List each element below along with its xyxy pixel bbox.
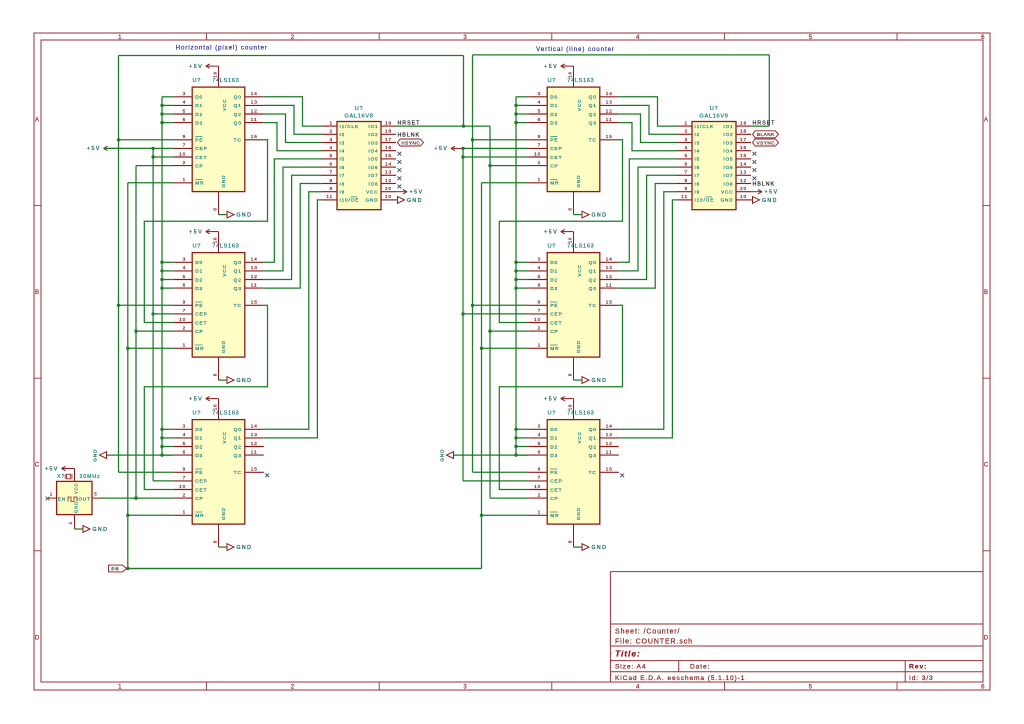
svg-text:+5V: +5V bbox=[434, 146, 448, 152]
svg-text:2: 2 bbox=[329, 129, 333, 134]
svg-text:GND: GND bbox=[237, 378, 253, 384]
svg-text:16: 16 bbox=[568, 404, 573, 410]
svg-text:HBLNK: HBLNK bbox=[753, 182, 775, 188]
svg-text:4: 4 bbox=[183, 265, 187, 270]
svg-text:VCC: VCC bbox=[222, 431, 227, 443]
svg-text:4: 4 bbox=[684, 145, 688, 150]
svg-text:D0: D0 bbox=[550, 427, 558, 433]
svg-text:5: 5 bbox=[183, 441, 187, 446]
svg-text:HRSET: HRSET bbox=[398, 120, 421, 126]
svg-text:11: 11 bbox=[326, 194, 333, 199]
svg-text:13: 13 bbox=[251, 432, 258, 437]
svg-text:GND: GND bbox=[237, 213, 253, 219]
svg-text:7: 7 bbox=[183, 308, 187, 313]
svg-text:+5V: +5V bbox=[410, 190, 424, 196]
svg-text:IO7: IO7 bbox=[368, 173, 378, 178]
svg-text:TC: TC bbox=[234, 138, 242, 144]
svg-text:13: 13 bbox=[251, 100, 258, 105]
svg-text:+5V: +5V bbox=[765, 190, 779, 196]
svg-text:2: 2 bbox=[291, 35, 295, 41]
svg-text:Q2: Q2 bbox=[234, 112, 242, 118]
svg-text:18: 18 bbox=[740, 129, 747, 134]
svg-text:16: 16 bbox=[385, 145, 392, 150]
svg-text:CET: CET bbox=[550, 487, 562, 493]
svg-text:IO4: IO4 bbox=[723, 149, 733, 154]
svg-text:14: 14 bbox=[251, 91, 258, 96]
svg-text:TC: TC bbox=[589, 303, 597, 309]
svg-text:D1: D1 bbox=[550, 269, 558, 275]
svg-text:9: 9 bbox=[329, 186, 333, 191]
svg-text:5: 5 bbox=[538, 274, 542, 279]
svg-text:D2: D2 bbox=[550, 112, 558, 118]
svg-text:2: 2 bbox=[183, 492, 187, 497]
svg-text:4: 4 bbox=[636, 685, 640, 691]
svg-text:TC: TC bbox=[589, 470, 597, 476]
svg-text:6: 6 bbox=[981, 35, 985, 41]
svg-text:12: 12 bbox=[606, 108, 613, 113]
svg-text:15: 15 bbox=[251, 467, 258, 472]
svg-text:8: 8 bbox=[684, 178, 688, 183]
svg-text:Q2: Q2 bbox=[589, 277, 597, 283]
svg-text:A: A bbox=[35, 118, 40, 124]
svg-text:8: 8 bbox=[213, 373, 218, 376]
svg-text:5: 5 bbox=[94, 492, 97, 497]
svg-text:D0: D0 bbox=[195, 427, 203, 433]
svg-text:CP: CP bbox=[195, 496, 203, 502]
svg-text:U?: U? bbox=[548, 78, 557, 84]
svg-text:IO5: IO5 bbox=[723, 157, 733, 162]
svg-text:Q3: Q3 bbox=[589, 120, 597, 126]
svg-text:4: 4 bbox=[68, 521, 73, 524]
svg-text:5: 5 bbox=[684, 153, 688, 158]
svg-text:14: 14 bbox=[606, 424, 613, 429]
svg-text:HRSET: HRSET bbox=[753, 120, 776, 126]
svg-text:GND: GND bbox=[721, 198, 734, 203]
svg-text:PE: PE bbox=[195, 470, 203, 476]
svg-text:Horizontal (pixel) counter: Horizontal (pixel) counter bbox=[176, 45, 268, 52]
svg-text:VCC: VCC bbox=[577, 99, 582, 111]
svg-text:IO7: IO7 bbox=[723, 173, 733, 178]
svg-text:+5V: +5V bbox=[87, 146, 101, 152]
svg-text:D3: D3 bbox=[195, 286, 203, 292]
svg-text:14: 14 bbox=[251, 257, 258, 262]
svg-text:MR: MR bbox=[195, 346, 204, 352]
svg-text:GND: GND bbox=[592, 378, 608, 384]
svg-text:10: 10 bbox=[534, 151, 541, 156]
svg-text:5: 5 bbox=[329, 153, 333, 158]
svg-text:14: 14 bbox=[251, 424, 258, 429]
svg-text:7: 7 bbox=[538, 475, 542, 480]
svg-text:D2: D2 bbox=[195, 112, 203, 118]
svg-text:Q0: Q0 bbox=[234, 260, 242, 266]
svg-text:I8: I8 bbox=[340, 181, 346, 186]
svg-text:D3: D3 bbox=[550, 286, 558, 292]
svg-text:VSYNC: VSYNC bbox=[756, 140, 775, 145]
svg-text:Q2: Q2 bbox=[589, 112, 597, 118]
svg-text:D: D bbox=[35, 635, 40, 641]
svg-text:I5: I5 bbox=[695, 157, 701, 162]
svg-text:3: 3 bbox=[463, 685, 467, 691]
svg-text:3: 3 bbox=[538, 91, 542, 96]
svg-text:2: 2 bbox=[684, 129, 688, 134]
svg-text:+5V: +5V bbox=[189, 229, 203, 235]
svg-text:Q3: Q3 bbox=[234, 120, 242, 126]
svg-text:Size: A4: Size: A4 bbox=[615, 664, 646, 671]
svg-text:12: 12 bbox=[740, 178, 747, 183]
svg-text:9: 9 bbox=[183, 134, 187, 139]
svg-text:74LS163: 74LS163 bbox=[212, 78, 239, 84]
svg-text:19: 19 bbox=[740, 120, 747, 125]
svg-text:Q2: Q2 bbox=[234, 277, 242, 283]
svg-text:12: 12 bbox=[385, 178, 392, 183]
svg-text:D2: D2 bbox=[550, 277, 558, 283]
svg-text:4: 4 bbox=[636, 35, 640, 41]
svg-text:I6: I6 bbox=[340, 165, 346, 170]
svg-text:9: 9 bbox=[684, 186, 688, 191]
svg-text:15: 15 bbox=[251, 300, 258, 305]
svg-text:OUT: OUT bbox=[78, 496, 91, 502]
svg-text:BLANK: BLANK bbox=[757, 132, 775, 137]
svg-text:IO8: IO8 bbox=[723, 181, 733, 186]
svg-text:IO2: IO2 bbox=[723, 132, 733, 137]
svg-text:D3: D3 bbox=[195, 120, 203, 126]
svg-text:Q1: Q1 bbox=[234, 103, 242, 109]
svg-text:10: 10 bbox=[534, 484, 541, 489]
svg-text:15: 15 bbox=[606, 300, 613, 305]
svg-text:GND: GND bbox=[74, 501, 79, 513]
svg-text:17: 17 bbox=[385, 137, 392, 142]
svg-text:1: 1 bbox=[183, 343, 187, 348]
svg-text:IO6: IO6 bbox=[368, 165, 378, 170]
svg-text:D0: D0 bbox=[195, 260, 203, 266]
svg-text:5: 5 bbox=[538, 108, 542, 113]
svg-text:GND: GND bbox=[592, 213, 608, 219]
svg-text:MR: MR bbox=[195, 181, 204, 187]
svg-text:1: 1 bbox=[183, 177, 187, 182]
svg-text:3: 3 bbox=[538, 257, 542, 262]
svg-text:Title:: Title: bbox=[615, 649, 641, 659]
svg-text:CEP: CEP bbox=[195, 312, 208, 318]
svg-text:Q1: Q1 bbox=[589, 103, 597, 109]
svg-text:Q1: Q1 bbox=[589, 269, 597, 275]
svg-text:7: 7 bbox=[684, 170, 688, 175]
svg-text:1: 1 bbox=[538, 510, 542, 515]
svg-text:12: 12 bbox=[251, 274, 258, 279]
svg-text:1: 1 bbox=[50, 492, 53, 497]
svg-text:Q3: Q3 bbox=[234, 453, 242, 459]
svg-text:U?: U? bbox=[193, 244, 202, 250]
svg-text:9: 9 bbox=[538, 134, 542, 139]
svg-text:10: 10 bbox=[179, 484, 186, 489]
svg-text:12: 12 bbox=[606, 441, 613, 446]
svg-text:2: 2 bbox=[291, 685, 295, 691]
svg-text:12: 12 bbox=[251, 108, 258, 113]
svg-text:D: D bbox=[984, 635, 989, 641]
svg-text:IO6: IO6 bbox=[723, 165, 733, 170]
svg-text:16: 16 bbox=[740, 145, 747, 150]
svg-text:I2: I2 bbox=[695, 132, 701, 137]
svg-text:TC: TC bbox=[234, 303, 242, 309]
svg-text:13: 13 bbox=[606, 100, 613, 105]
svg-text:4: 4 bbox=[538, 265, 542, 270]
svg-text:11: 11 bbox=[606, 117, 613, 122]
svg-text:3: 3 bbox=[538, 424, 542, 429]
svg-text:CEP: CEP bbox=[195, 146, 208, 152]
svg-text:16: 16 bbox=[568, 71, 573, 77]
svg-text:15: 15 bbox=[606, 467, 613, 472]
svg-text:PE: PE bbox=[550, 470, 558, 476]
svg-text:MR: MR bbox=[195, 513, 204, 519]
svg-text:3: 3 bbox=[183, 91, 187, 96]
svg-text:18: 18 bbox=[385, 129, 392, 134]
svg-text:CEP: CEP bbox=[550, 146, 563, 152]
svg-text:7: 7 bbox=[183, 475, 187, 480]
svg-text:Q0: Q0 bbox=[589, 95, 597, 101]
svg-text:I5: I5 bbox=[340, 157, 346, 162]
svg-text:GND: GND bbox=[237, 545, 253, 551]
svg-text:KiCad E.D.A. eeschema (5.1.10: KiCad E.D.A. eeschema (5.1.10)-1 bbox=[615, 675, 745, 682]
svg-text:GND: GND bbox=[221, 340, 226, 353]
svg-text:16: 16 bbox=[213, 237, 218, 243]
svg-text:10: 10 bbox=[179, 317, 186, 322]
svg-text:D1: D1 bbox=[550, 103, 558, 109]
svg-text:13: 13 bbox=[385, 170, 392, 175]
svg-text:15: 15 bbox=[606, 134, 613, 139]
svg-text:10: 10 bbox=[534, 317, 541, 322]
svg-text:17: 17 bbox=[740, 137, 747, 142]
svg-text:+5V: +5V bbox=[189, 64, 203, 70]
svg-text:IO8: IO8 bbox=[368, 181, 378, 186]
svg-text:Date:: Date: bbox=[690, 664, 710, 671]
svg-text:4: 4 bbox=[183, 100, 187, 105]
svg-text:HSYNC: HSYNC bbox=[401, 140, 420, 145]
svg-text:11: 11 bbox=[251, 117, 258, 122]
svg-text:IO1: IO1 bbox=[723, 124, 733, 129]
svg-text:6: 6 bbox=[538, 117, 542, 122]
svg-text:5: 5 bbox=[809, 35, 813, 41]
svg-text:I10/OE: I10/OE bbox=[695, 198, 715, 203]
svg-text:U?: U? bbox=[193, 78, 202, 84]
svg-text:6: 6 bbox=[538, 449, 542, 454]
svg-text:1: 1 bbox=[684, 120, 688, 125]
svg-text:10: 10 bbox=[740, 194, 747, 199]
svg-text:14: 14 bbox=[606, 91, 613, 96]
svg-text:14: 14 bbox=[740, 161, 747, 166]
svg-text:16: 16 bbox=[568, 237, 573, 243]
svg-text:10: 10 bbox=[179, 151, 186, 156]
svg-text:I3: I3 bbox=[340, 140, 346, 145]
svg-text:7: 7 bbox=[329, 170, 333, 175]
svg-text:2: 2 bbox=[538, 325, 542, 330]
svg-text:5: 5 bbox=[538, 441, 542, 446]
svg-text:D0: D0 bbox=[550, 260, 558, 266]
svg-text:5: 5 bbox=[183, 108, 187, 113]
svg-text:CEP: CEP bbox=[550, 312, 563, 318]
svg-text:GND: GND bbox=[93, 449, 98, 462]
svg-text:2: 2 bbox=[538, 160, 542, 165]
svg-text:4: 4 bbox=[183, 432, 187, 437]
svg-text:PE: PE bbox=[550, 303, 558, 309]
svg-text:74LS163: 74LS163 bbox=[567, 411, 594, 417]
svg-text:GAL16V8: GAL16V8 bbox=[344, 113, 373, 119]
svg-text:1: 1 bbox=[183, 510, 187, 515]
svg-text:8: 8 bbox=[568, 540, 573, 543]
svg-text:74LS163: 74LS163 bbox=[567, 78, 594, 84]
svg-text:CET: CET bbox=[195, 487, 207, 493]
svg-text:15: 15 bbox=[385, 153, 392, 158]
svg-text:Q1: Q1 bbox=[234, 436, 242, 442]
svg-text:3: 3 bbox=[463, 35, 467, 41]
svg-text:8: 8 bbox=[213, 540, 218, 543]
svg-text:I10/OE: I10/OE bbox=[340, 198, 360, 203]
svg-text:3: 3 bbox=[183, 424, 187, 429]
svg-text:4: 4 bbox=[329, 145, 333, 150]
svg-text:CET: CET bbox=[195, 320, 207, 326]
svg-text:U?: U? bbox=[193, 411, 202, 417]
svg-text:GND: GND bbox=[592, 545, 608, 551]
svg-text:I1/CLK: I1/CLK bbox=[340, 124, 359, 129]
svg-text:8: 8 bbox=[568, 373, 573, 376]
svg-text:4: 4 bbox=[538, 432, 542, 437]
svg-text:TC: TC bbox=[589, 138, 597, 144]
svg-text:6: 6 bbox=[981, 685, 985, 691]
svg-text:CET: CET bbox=[550, 155, 562, 161]
svg-text:PR: PR bbox=[111, 567, 119, 572]
svg-text:D1: D1 bbox=[195, 269, 203, 275]
svg-text:D1: D1 bbox=[195, 436, 203, 442]
svg-text:7: 7 bbox=[183, 143, 187, 148]
svg-text:U?: U? bbox=[710, 106, 719, 112]
svg-text:Q3: Q3 bbox=[234, 286, 242, 292]
svg-text:VCC: VCC bbox=[577, 264, 582, 276]
svg-text:GND: GND bbox=[366, 198, 379, 203]
svg-text:D3: D3 bbox=[195, 453, 203, 459]
svg-text:8: 8 bbox=[568, 207, 573, 210]
svg-text:Vertical (line) counter: Vertical (line) counter bbox=[536, 46, 615, 53]
svg-text:CET: CET bbox=[550, 320, 562, 326]
svg-text:I8: I8 bbox=[695, 181, 701, 186]
svg-text:PE: PE bbox=[195, 138, 203, 144]
svg-text:IO1: IO1 bbox=[368, 124, 378, 129]
svg-text:6: 6 bbox=[183, 282, 187, 287]
svg-text:EN: EN bbox=[58, 496, 66, 502]
svg-text:CP: CP bbox=[550, 163, 558, 169]
svg-text:3: 3 bbox=[183, 257, 187, 262]
svg-text:9: 9 bbox=[183, 467, 187, 472]
svg-text:GND: GND bbox=[221, 507, 226, 520]
svg-text:9: 9 bbox=[538, 300, 542, 305]
svg-text:GND: GND bbox=[93, 527, 109, 533]
svg-text:GND: GND bbox=[576, 340, 581, 353]
svg-text:CP: CP bbox=[195, 163, 203, 169]
svg-text:D3: D3 bbox=[550, 120, 558, 126]
svg-text:D2: D2 bbox=[195, 444, 203, 450]
svg-text:4: 4 bbox=[538, 100, 542, 105]
svg-text:PE: PE bbox=[550, 138, 558, 144]
svg-text:7: 7 bbox=[538, 308, 542, 313]
svg-text:I7: I7 bbox=[695, 173, 701, 178]
svg-text:B: B bbox=[984, 290, 989, 296]
svg-text:CEP: CEP bbox=[195, 479, 208, 485]
svg-text:VCC: VCC bbox=[222, 264, 227, 276]
svg-text:Q0: Q0 bbox=[589, 260, 597, 266]
svg-text:VCC: VCC bbox=[577, 431, 582, 443]
svg-text:+5V: +5V bbox=[544, 64, 558, 70]
svg-text:IO4: IO4 bbox=[368, 149, 378, 154]
svg-text:12: 12 bbox=[251, 441, 258, 446]
svg-text:6: 6 bbox=[183, 449, 187, 454]
svg-text:20: 20 bbox=[385, 186, 392, 191]
svg-text:Id: 3/3: Id: 3/3 bbox=[909, 675, 934, 682]
svg-text:+5V: +5V bbox=[45, 466, 59, 472]
svg-text:11: 11 bbox=[251, 449, 258, 454]
svg-text:D0: D0 bbox=[550, 95, 558, 101]
svg-text:CP: CP bbox=[550, 329, 558, 335]
svg-text:C: C bbox=[984, 463, 989, 469]
svg-text:3: 3 bbox=[329, 137, 333, 142]
svg-text:I4: I4 bbox=[340, 149, 346, 154]
svg-text:1: 1 bbox=[329, 120, 333, 125]
svg-text:U?: U? bbox=[355, 106, 364, 112]
svg-text:16: 16 bbox=[213, 71, 218, 77]
svg-text:X?: X? bbox=[57, 474, 65, 480]
svg-text:Q2: Q2 bbox=[589, 444, 597, 450]
svg-text:8: 8 bbox=[213, 207, 218, 210]
svg-text:I2: I2 bbox=[340, 132, 346, 137]
svg-text:+5V: +5V bbox=[189, 396, 203, 402]
svg-text:7: 7 bbox=[538, 143, 542, 148]
svg-text:MR: MR bbox=[550, 181, 559, 187]
svg-text:20MHz: 20MHz bbox=[80, 474, 101, 480]
svg-text:File: COUNTER.sch: File: COUNTER.sch bbox=[615, 639, 693, 646]
svg-text:Q3: Q3 bbox=[589, 286, 597, 292]
svg-text:12: 12 bbox=[606, 274, 613, 279]
svg-text:+5V: +5V bbox=[544, 229, 558, 235]
svg-text:VCC: VCC bbox=[366, 190, 378, 195]
svg-text:IO5: IO5 bbox=[368, 157, 378, 162]
svg-text:U?: U? bbox=[548, 411, 557, 417]
svg-text:GND: GND bbox=[762, 198, 778, 204]
svg-text:16: 16 bbox=[213, 404, 218, 410]
svg-text:GND: GND bbox=[576, 175, 581, 188]
svg-text:1: 1 bbox=[538, 177, 542, 182]
svg-text:MR: MR bbox=[550, 346, 559, 352]
svg-text:C: C bbox=[35, 463, 40, 469]
svg-text:D0: D0 bbox=[195, 95, 203, 101]
svg-text:I6: I6 bbox=[695, 165, 701, 170]
svg-text:GND: GND bbox=[407, 198, 423, 204]
svg-text:6: 6 bbox=[538, 282, 542, 287]
svg-text:Q1: Q1 bbox=[234, 269, 242, 275]
svg-text:I3: I3 bbox=[695, 140, 701, 145]
svg-text:2: 2 bbox=[183, 160, 187, 165]
svg-text:+5V: +5V bbox=[544, 396, 558, 402]
svg-text:B: B bbox=[35, 290, 40, 296]
svg-text:14: 14 bbox=[606, 257, 613, 262]
svg-text:D2: D2 bbox=[195, 277, 203, 283]
svg-text:13: 13 bbox=[740, 170, 747, 175]
svg-text:19: 19 bbox=[385, 120, 392, 125]
svg-text:Sheet: /Counter/: Sheet: /Counter/ bbox=[615, 629, 680, 636]
svg-text:CEP: CEP bbox=[550, 479, 563, 485]
svg-text:D3: D3 bbox=[550, 453, 558, 459]
svg-text:6: 6 bbox=[183, 117, 187, 122]
svg-text:9: 9 bbox=[183, 300, 187, 305]
svg-text:20: 20 bbox=[740, 186, 747, 191]
svg-text:CP: CP bbox=[550, 496, 558, 502]
svg-text:Q0: Q0 bbox=[234, 95, 242, 101]
svg-text:GND: GND bbox=[576, 507, 581, 520]
